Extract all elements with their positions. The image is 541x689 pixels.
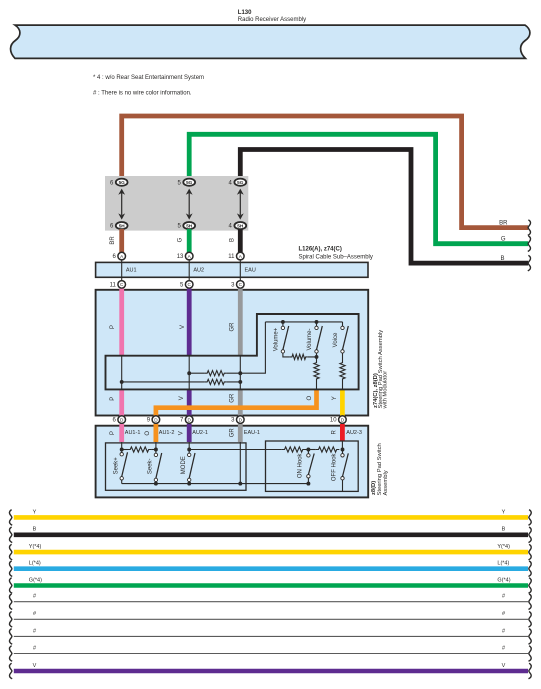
svg-text:# : There is no wire color inf: # : There is no wire color information. [93,90,192,96]
node gray bus [238,482,242,486]
switch Volume- [316,322,318,326]
wire through spiral cable AU2 [188,260,190,280]
wire G green from radio [189,134,528,243]
svg-text:10: 10 [330,418,337,424]
wire B bottom row [14,532,528,537]
svg-text:G: G [178,237,184,242]
svg-text:D: D [120,417,124,422]
inner case right [266,441,359,491]
svg-text:Seek+: Seek+ [113,457,119,475]
wire Y bottom row [14,515,528,520]
resistor R6 seek [122,449,128,451]
break mark G wire [528,236,531,252]
junction connector 5G pin 6 [116,179,128,186]
svg-text:AU2: AU2 [193,268,204,274]
wire lower row [122,381,241,383]
svg-text:EAU-1: EAU-1 [244,430,260,436]
junction connector 5H pin 6 [116,222,128,229]
node on hook bottom [306,482,310,486]
connector D pin 3 [237,416,245,424]
svg-text:AU1: AU1 [126,268,137,274]
svg-text:AU1-1: AU1-1 [125,430,141,436]
wire through spiral cable EAU [239,260,241,280]
connector C pin 11 [118,281,126,289]
svg-text:5H: 5H [186,223,193,228]
node violet-R1 [187,371,191,375]
node volume- resistor [315,355,319,359]
wire B black from radio [240,150,528,264]
connector D pin 6 [118,416,126,424]
node seek- bottom [154,482,158,486]
svg-text:with Modulator: with Modulator [383,371,389,410]
wire V bottom row [14,669,528,674]
resistor R3 volume [290,354,308,359]
svg-text:Y: Y [332,396,338,400]
node off hook top [341,448,345,452]
svg-text:Assembly: Assembly [383,470,389,495]
svg-text:P: P [110,397,116,401]
wire G(*4) bottom row [14,583,528,588]
wire # bottom row [14,635,528,637]
switch Seek- [155,442,157,453]
svg-text:GR: GR [230,428,236,438]
switch Volume+ [282,322,284,326]
wire bottom bus [122,483,309,485]
switch Voice [342,322,344,326]
svg-text:Volume+: Volume+ [273,327,279,351]
wire Y(*4) bottom row [14,550,528,555]
node gray-R2 [238,380,242,384]
connector A pin 11 [237,252,245,260]
connector C pin 3 [237,281,245,289]
modulator internal outline [106,314,359,389]
svg-text:C: C [120,282,124,287]
connector A pin 13 [185,252,193,260]
svg-text:5G: 5G [186,180,193,185]
wire BR stub [119,229,124,253]
svg-text:Radio Receiver Assembly: Radio Receiver Assembly [238,17,306,23]
svg-text:B: B [33,527,37,533]
svg-text:Y: Y [33,509,37,515]
junction connector 5H pin 5 [183,222,195,229]
arrow link pin 6 [121,193,123,215]
resistor R2 lower [205,379,227,384]
svg-text:D: D [188,417,192,422]
svg-text:BR: BR [110,236,116,245]
wire EAU-1 gray branch [239,442,241,484]
connector C pin 5 [185,281,193,289]
svg-text:BR: BR [499,220,508,226]
wire pink branch thin [121,356,123,390]
break mark BR wire [528,220,531,236]
svg-text:B: B [502,527,506,533]
connector A pin 6 [118,252,126,260]
connector D pin 7 [185,416,193,424]
wire # bottom row [14,601,528,603]
break mark B wire [528,255,531,271]
box z8(D) steering pad switch assembly [96,426,369,498]
wire GR gray upper [238,289,243,356]
wire BR brown from radio [122,116,528,228]
svg-text:Spiral Cable Sub–Assembly: Spiral Cable Sub–Assembly [299,255,373,261]
wire upper row to switch bus [189,322,265,373]
svg-text:G(*4): G(*4) [29,577,42,583]
svg-text:Seek-: Seek- [148,458,154,474]
resistor R4 [314,362,319,381]
svg-text:Y: Y [502,509,506,515]
wire # bottom row [14,653,528,655]
svg-text:GR: GR [230,393,236,403]
svg-text:5H: 5H [237,223,244,228]
svg-text:O: O [145,431,151,436]
connector D pin 9 [152,416,160,424]
svg-text:V: V [180,325,186,329]
arrow link pin 5 [188,193,190,215]
wire gray branch thin [239,356,241,390]
node volume+ bus [281,320,285,324]
svg-text:11: 11 [228,254,235,260]
resistor R1 upper [205,371,227,376]
wire switch top bus [265,321,342,323]
svg-text:EAU: EAU [245,268,256,274]
svg-text:B: B [500,256,504,262]
wire L(*4) bottom row [14,566,528,571]
wire P pink lower [119,390,124,416]
svg-text:5G: 5G [119,180,126,185]
svg-text:L126(A), z74(C): L126(A), z74(C) [299,246,342,252]
component L130 Radio Receiver Assembly band [11,25,530,58]
node pink-R2 [120,380,124,384]
inner case left [106,443,247,490]
svg-text:L(*4): L(*4) [29,561,41,567]
svg-text:C: C [188,282,192,287]
wire V violet lower [187,390,192,416]
wire B stub [238,229,243,253]
wire V violet upper [187,289,192,356]
svg-text:Y(*4): Y(*4) [497,544,510,550]
svg-text:R: R [331,429,337,434]
spiral cable sub-assembly box [96,262,368,277]
svg-text:13: 13 [177,254,184,260]
junction connector 5G pin 5 [183,179,195,186]
node volume- bus [315,320,319,324]
wire O orange [156,389,317,416]
switch ON Hook [307,450,309,454]
svg-text:* 4 : w/o Rear Seat Entertainm: * 4 : w/o Rear Seat Entertainment System [93,75,204,81]
wire # bottom row [14,618,528,620]
switch MODE [188,442,190,453]
svg-text:D: D [341,417,345,422]
junction block band [105,176,248,231]
wire P stub to AU1-1 [119,424,124,442]
svg-text:L130: L130 [238,10,252,16]
svg-text:AU1-2: AU1-2 [159,430,175,436]
wire violet branch thin [188,356,190,390]
wire Y yellow [340,389,345,416]
wire mode to hook resistors [189,449,282,451]
svg-text:V: V [502,663,506,669]
node gray-R1 [238,371,242,375]
svg-text:AU2-1: AU2-1 [192,430,208,436]
junction connector 5G pin 4 [234,179,246,186]
connector D pin 10 [339,416,347,424]
svg-text:Y(*4): Y(*4) [29,544,42,550]
resistor R5 [340,362,345,381]
switch OFF Hook [342,450,344,454]
svg-text:OFF Hook: OFF Hook [332,452,338,481]
box z74(C) z8(D) steering pad switch assembly with modulator [96,290,369,416]
wire V stub to AU2-1 [187,424,192,442]
svg-text:O: O [307,396,313,401]
svg-text:G: G [501,237,506,243]
svg-text:B: B [229,238,235,242]
svg-text:V: V [33,663,37,669]
svg-text:Voice: Voice [333,332,339,347]
node on hook top [306,448,310,452]
arrow link pin 4 [239,193,241,215]
svg-text:V: V [178,431,184,435]
svg-text:ON Hook: ON Hook [298,452,304,478]
svg-text:11: 11 [110,283,117,289]
resistor R8 hook [316,447,340,452]
wire red branch [341,441,343,450]
wire through spiral cable AU1 [121,260,123,280]
svg-text:D: D [154,417,158,422]
switch Seek+ [121,442,123,453]
wire P pink upper [119,289,124,356]
wire O stub to AU1-2 [153,424,158,442]
svg-text:5G: 5G [237,180,244,185]
node mode bottom [187,482,191,486]
svg-text:P: P [110,325,116,329]
wire GR gray lower [238,390,243,416]
svg-text:5H: 5H [119,223,126,228]
wire R stub to AU2-3 [340,424,345,441]
svg-text:AU2-3: AU2-3 [346,430,362,436]
svg-text:Volume-: Volume- [307,328,313,350]
svg-text:L(*4): L(*4) [497,561,509,567]
wire G stub [187,229,192,253]
svg-text:G(*4): G(*4) [497,577,510,583]
resistor R7 hook [282,447,306,452]
wire GR stub to EAU-1 [238,424,243,442]
svg-text:P: P [110,431,116,435]
junction connector 5H pin 4 [234,222,246,229]
svg-text:V: V [179,396,185,400]
svg-text:GR: GR [230,322,236,332]
svg-text:MODE: MODE [181,456,187,474]
